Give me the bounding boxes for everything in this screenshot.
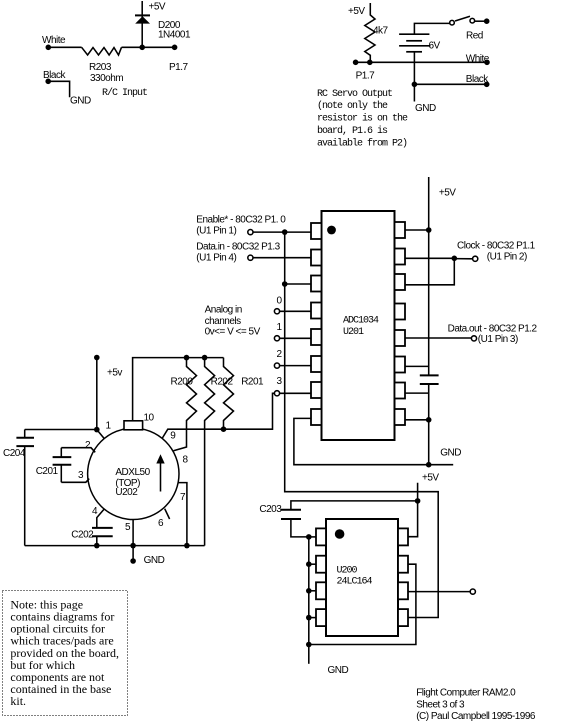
- wire right pin7 to gnd line: [405, 392, 429, 394]
- wire black (servo): [414, 83, 486, 85]
- svg-text:Analog in: Analog in: [205, 304, 242, 315]
- pin 5 wire: [132, 519, 134, 545]
- wire diode vertical: [141, 1, 143, 47]
- pin rect left 4: [311, 303, 322, 319]
- node P1.7 (servo): [353, 60, 359, 66]
- pin rect U200 left 3: [316, 582, 326, 599]
- junction enable-pin3: [282, 281, 288, 287]
- resistor R200: [174, 358, 197, 451]
- capacitor C201: [53, 456, 72, 458]
- switch: [450, 20, 455, 25]
- junction pin7 gnd: [184, 543, 190, 549]
- wire enable chain vertical to U200: [285, 232, 439, 617]
- junction pin1: [94, 427, 100, 433]
- svg-text:U200: U200: [337, 566, 358, 577]
- junction left pin1: [306, 534, 312, 540]
- wire pin9 to channel3: [162, 393, 274, 438]
- svg-text:Sheet 3 of 3: Sheet 3 of 3: [416, 699, 465, 710]
- svg-text:330ohm: 330ohm: [90, 73, 123, 84]
- node data out connector: [471, 336, 476, 341]
- node red: [484, 18, 490, 24]
- svg-text:R202: R202: [211, 376, 234, 387]
- wire +5V to U200 right pin1: [408, 483, 418, 537]
- svg-text:2: 2: [277, 349, 283, 360]
- svg-text:24LC164: 24LC164: [337, 576, 373, 587]
- svg-text:ADXL50: ADXL50: [115, 467, 150, 478]
- junction left pin2: [306, 561, 312, 567]
- node white end: [484, 60, 490, 66]
- pin rect right 7: [395, 383, 406, 399]
- svg-text:1: 1: [106, 421, 112, 432]
- wire black: [45, 79, 51, 85]
- svg-text:Flight Computer RAM2.0: Flight Computer RAM2.0: [416, 688, 516, 699]
- svg-text:R200: R200: [171, 376, 194, 387]
- junction clock: [452, 255, 458, 261]
- wire +5v vertical: [96, 358, 98, 430]
- pin rect U200 left 1: [316, 528, 326, 545]
- svg-text:P1.7: P1.7: [356, 71, 376, 82]
- svg-text:R/C Input: R/C Input: [102, 87, 147, 99]
- node U200 data connector: [470, 589, 475, 594]
- svg-text:6: 6: [158, 518, 164, 529]
- svg-text:Black: Black: [466, 74, 489, 85]
- svg-text:(U1 Pin 4): (U1 Pin 4): [196, 252, 236, 263]
- svg-text:2: 2: [85, 440, 91, 451]
- pin 4 stub: [97, 509, 104, 528]
- node black end: [484, 82, 490, 88]
- wire enable to pin1: [253, 231, 311, 233]
- junction R201 bottom: [221, 426, 227, 432]
- svg-text:+5v: +5v: [107, 367, 122, 378]
- diode D200: [135, 14, 150, 16]
- svg-text:GND: GND: [440, 448, 461, 459]
- wire gnd segment below cap: [428, 384, 430, 465]
- svg-text:3: 3: [78, 470, 84, 481]
- pin rect right 5: [395, 330, 406, 346]
- svg-text:Data.out - 80C32 P1.2: Data.out - 80C32 P1.2: [448, 323, 538, 334]
- svg-text:C203: C203: [259, 504, 282, 515]
- svg-text:U202: U202: [115, 487, 138, 498]
- wire junction to pin3: [285, 283, 311, 285]
- node P1.7: [172, 45, 178, 51]
- svg-text:3: 3: [277, 376, 283, 387]
- junction diode node: [139, 45, 145, 51]
- svg-text:Data.in - 80C32 P1.3: Data.in - 80C32 P1.3: [196, 242, 280, 253]
- svg-text:R201: R201: [241, 376, 264, 387]
- pin 7 wire: [178, 483, 187, 546]
- svg-text:board, P1.6 is: board, P1.6 is: [317, 125, 388, 137]
- svg-text:Red: Red: [466, 31, 483, 42]
- junction gnd bus: [426, 462, 432, 468]
- pin rect U200 right 4: [398, 609, 408, 626]
- node Data-in connector: [248, 255, 253, 260]
- capacitor decoupling (ADC): [420, 374, 439, 376]
- svg-text:0v<= V <= 5V: 0v<= V <= 5V: [205, 326, 261, 337]
- wire right pin5 to data out: [405, 337, 471, 339]
- transducer U202 ADXL50 body: [88, 428, 179, 519]
- pin rect left 1: [311, 223, 322, 239]
- wire ch0 to pin4: [280, 310, 311, 312]
- pin rect left 3: [311, 276, 322, 292]
- svg-text:GND: GND: [328, 665, 349, 676]
- capacitor C204: [16, 437, 34, 439]
- arrow (ADXL orientation): [160, 463, 162, 492]
- pin rect U200 left 4: [316, 609, 326, 626]
- svg-text:(C) Paul Campbell 1995-1996: (C) Paul Campbell 1995-1996: [416, 711, 536, 722]
- pin rect right 3: [395, 274, 406, 290]
- junction left pin4: [306, 615, 312, 621]
- wire +5V vertical (right of ADC): [428, 177, 430, 375]
- node clock connector: [473, 256, 478, 261]
- svg-text:6V: 6V: [429, 41, 441, 52]
- node +5v supply (ADXL): [94, 355, 100, 361]
- node Enable connector: [248, 230, 253, 235]
- wire white (servo): [356, 61, 487, 63]
- pin rect left 8: [311, 409, 322, 425]
- wire C203 top to +5V: [291, 501, 418, 510]
- junction 4k7 bottom: [367, 60, 373, 66]
- wire right pin3 to connector: [408, 591, 470, 593]
- resistor R201: [224, 358, 234, 430]
- pin 10 box: [124, 421, 143, 430]
- svg-text:GND: GND: [415, 103, 436, 114]
- svg-text:C204: C204: [3, 448, 26, 459]
- wire ch1 to pin5: [280, 337, 311, 339]
- svg-text:kit.: kit.: [10, 694, 26, 708]
- wire battery bottom: [413, 52, 415, 85]
- svg-text:C201: C201: [36, 466, 59, 477]
- svg-text:10: 10: [144, 413, 155, 424]
- svg-text:1N4001: 1N4001: [158, 30, 191, 41]
- pin rect right 6: [395, 357, 406, 373]
- IC U200 24LC164 body: [326, 519, 398, 636]
- svg-text:White: White: [42, 35, 66, 46]
- svg-text:(note only the: (note only the: [317, 100, 388, 112]
- node channel 0: [274, 309, 279, 314]
- svg-text:U201: U201: [343, 327, 364, 338]
- node channel 3: [274, 391, 279, 396]
- svg-text:0: 0: [277, 295, 283, 306]
- svg-text:White: White: [466, 53, 490, 64]
- pin rect left 2: [311, 250, 322, 266]
- svg-text:(U1 Pin 1): (U1 Pin 1): [196, 226, 236, 237]
- svg-text:GND: GND: [144, 555, 165, 566]
- svg-text:8: 8: [183, 455, 189, 466]
- wire left pin8 to ground bus: [294, 418, 453, 464]
- wire clock to connector: [454, 258, 472, 260]
- wire resistor-to-P1.7: [122, 46, 175, 48]
- resistor R202: [205, 358, 215, 546]
- wire C204 top to pin1: [25, 429, 97, 431]
- svg-text:RC Servo Output: RC Servo Output: [317, 89, 392, 100]
- node channel 1: [274, 336, 279, 341]
- svg-text:Clock - 80C32 P1.1: Clock - 80C32 P1.1: [457, 241, 536, 252]
- pin rect U200 right 3: [398, 582, 408, 599]
- junction enable: [282, 229, 288, 235]
- wire right pin1 to +5V: [405, 229, 429, 231]
- wire white-to-resistor: [48, 46, 81, 48]
- capacitor C203: [281, 509, 301, 511]
- wire ch3 to pin7: [280, 392, 311, 394]
- pin 2 stub and C201 top wire: [61, 448, 95, 453]
- junction right pin8: [426, 417, 432, 423]
- wire ch2 to pin6: [280, 365, 311, 367]
- junction pin5 gnd: [130, 543, 136, 549]
- capacitor C202: [92, 527, 113, 529]
- svg-text:Enable* - 80C32 P1. 0: Enable* - 80C32 P1. 0: [196, 214, 286, 225]
- battery 6V: [399, 33, 429, 35]
- svg-text:GND: GND: [70, 95, 91, 106]
- junction C202 gnd: [94, 543, 100, 549]
- pin rect left 6: [311, 356, 322, 372]
- node channel 2: [274, 363, 279, 368]
- junction R202 top: [202, 355, 208, 361]
- pin rect right 2: [395, 249, 406, 265]
- svg-text:(U1 Pin 3): (U1 Pin 3): [478, 334, 518, 345]
- pin 1 stub: [97, 430, 105, 439]
- pin rect right 1: [395, 222, 406, 238]
- svg-text:4: 4: [92, 506, 98, 517]
- svg-text:R203: R203: [89, 62, 112, 73]
- junction +5V / C203: [415, 498, 421, 504]
- pin rect U200 right 2: [398, 556, 408, 573]
- svg-text:5: 5: [125, 522, 131, 533]
- svg-text:+5V: +5V: [439, 187, 456, 198]
- pin rect right 4: [395, 304, 406, 320]
- svg-text:P1.7: P1.7: [169, 62, 189, 73]
- wire right pin2 to gnd (around bottom): [309, 564, 416, 644]
- svg-text:4k7: 4k7: [373, 26, 389, 37]
- wire left ground bus U200: [308, 537, 310, 664]
- pin rect right 8: [395, 409, 406, 425]
- pin 1 marker U201: [327, 226, 336, 235]
- svg-text:Black: Black: [43, 70, 66, 81]
- pin rect left 7: [311, 382, 322, 398]
- junction left pin3: [306, 588, 312, 594]
- svg-text:+5V: +5V: [348, 6, 365, 17]
- junction bottom route: [306, 642, 312, 648]
- resistor R203: [82, 47, 122, 55]
- wire data-in to pin2: [253, 257, 311, 259]
- svg-text:channels: channels: [205, 316, 242, 327]
- svg-text:(U1 Pin 2): (U1 Pin 2): [487, 252, 527, 263]
- ground stub (servo): [413, 84, 415, 101]
- svg-text:1: 1: [277, 322, 283, 333]
- wire C203 bottom to left bus: [291, 519, 309, 537]
- svg-text:9: 9: [170, 430, 176, 441]
- pin rect U200 right 1: [398, 528, 408, 545]
- svg-text:ADC1034: ADC1034: [343, 316, 379, 327]
- wire battery top to switch: [414, 23, 449, 34]
- op-amp U201 chip body ADC1034: [322, 211, 395, 440]
- svg-text:+5V: +5V: [149, 2, 166, 13]
- node White: [46, 45, 52, 51]
- pin 6 stub: [165, 509, 170, 519]
- pin 3 stub wire: [61, 479, 89, 483]
- note box border: [3, 591, 128, 716]
- wire right pin3 to clock junction: [405, 258, 454, 285]
- wire resistor top bus: [133, 358, 224, 421]
- svg-text:7: 7: [180, 492, 186, 503]
- svg-text:resistor is on the: resistor is on the: [317, 113, 408, 125]
- wire right pin2 to clock: [405, 257, 454, 259]
- resistor 4k7: [365, 3, 375, 62]
- pin rect U200 left 2: [316, 556, 326, 573]
- wire stubs left pins: [309, 536, 316, 538]
- svg-text:+5V: +5V: [422, 473, 439, 484]
- junction right pin1 +5V: [426, 227, 432, 233]
- pin 1 marker U200: [335, 529, 345, 539]
- pin rect left 5: [311, 329, 322, 345]
- svg-text:C202: C202: [71, 529, 94, 540]
- svg-text:available from P2): available from P2): [317, 138, 407, 150]
- wire right pin6 to +5V: [405, 365, 429, 367]
- junction R200 top: [184, 355, 190, 361]
- ground stub (ADXL): [132, 546, 134, 561]
- ground bus (ADXL): [25, 545, 205, 547]
- wire right pin8 to gnd line: [405, 419, 429, 421]
